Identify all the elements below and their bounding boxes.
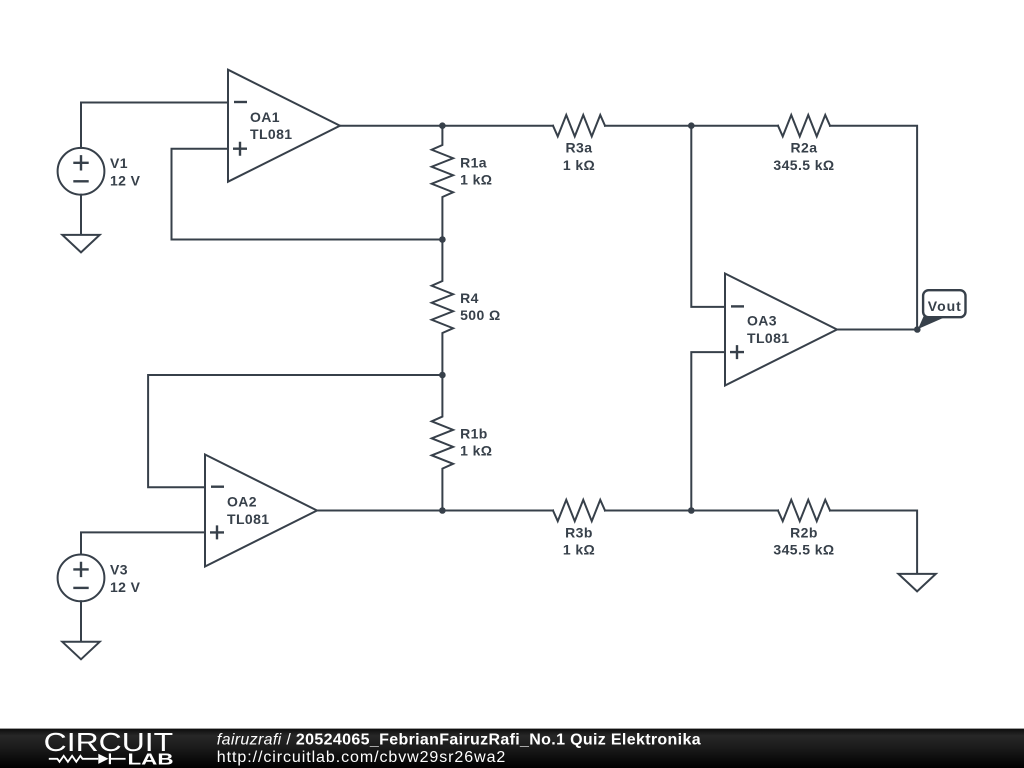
svg-text:TL081: TL081	[250, 126, 292, 142]
wire R2a to right rail down to Vout node	[830, 126, 917, 330]
OA1 plus pin marker	[233, 142, 247, 156]
logo diode bar	[109, 753, 111, 764]
junction node D	[439, 372, 446, 379]
logo resistor squiggle	[49, 756, 99, 762]
wire OA2 inverting feedback to node D	[148, 375, 442, 487]
svg-text:1 kΩ: 1 kΩ	[460, 172, 492, 188]
svg-text:R3a: R3a	[566, 140, 593, 156]
svg-text:V3: V3	[110, 562, 128, 578]
svg-text:12 V: 12 V	[110, 579, 141, 595]
svg-text:R3b: R3b	[565, 525, 593, 541]
voltage source V3	[58, 555, 105, 602]
wire OA3 non-inverting input down to node E	[691, 352, 725, 510]
svg-text:fairuzrafi / 20524065_FebrianF: fairuzrafi / 20524065_FebrianFairuzRafi_…	[217, 731, 701, 748]
resistor R2a	[778, 115, 830, 136]
svg-text:V1: V1	[110, 155, 128, 171]
resistor R2b	[778, 500, 830, 521]
svg-text:R1b: R1b	[460, 426, 488, 442]
svg-text:1 kΩ: 1 kΩ	[563, 157, 595, 173]
svg-text:500 Ω: 500 Ω	[460, 307, 500, 323]
junction node A	[439, 122, 446, 129]
svg-text:345.5 kΩ: 345.5 kΩ	[773, 542, 834, 558]
wire OA2 output to node F	[317, 510, 553, 512]
wire node E to R2b	[691, 510, 778, 512]
svg-text:R2b: R2b	[790, 525, 818, 541]
junction node B	[439, 236, 446, 243]
wire OA2 non-inverting input to V3 top	[81, 532, 205, 554]
svg-text:1 kΩ: 1 kΩ	[460, 443, 492, 459]
resistor R1b	[432, 375, 453, 511]
op-amp OA2	[205, 455, 317, 567]
svg-text:OA2: OA2	[227, 494, 257, 510]
wire R2b to ground rail	[830, 511, 917, 574]
junction node F	[439, 507, 446, 514]
OA2 plus pin marker	[210, 525, 224, 539]
wire R3a to node C	[605, 125, 691, 127]
wire node C down to OA3 inverting input	[691, 126, 725, 307]
junction node C	[688, 122, 695, 129]
OA2 minus pin marker	[211, 486, 224, 488]
wire V3 bottom to ground	[80, 601, 82, 642]
ground below R2b	[898, 574, 935, 592]
V3 plus sign	[73, 562, 88, 577]
wire V1 top to OA1 inverting input	[81, 103, 228, 148]
ground below V3	[62, 642, 99, 660]
svg-text:R4: R4	[460, 290, 479, 306]
svg-text:R1a: R1a	[460, 155, 487, 171]
wire V1 bottom to ground	[80, 195, 82, 235]
OA1 minus pin marker	[234, 101, 247, 103]
svg-text:1 kΩ: 1 kΩ	[563, 542, 595, 558]
op-amp OA3	[725, 274, 837, 386]
wire OA1 output to node A	[340, 125, 553, 127]
junction node E	[688, 507, 695, 514]
resistor R3a	[553, 115, 605, 136]
OA3 plus pin marker	[730, 345, 744, 359]
resistor R1a	[432, 126, 453, 240]
net flag Vout box	[923, 290, 965, 317]
svg-text:R2a: R2a	[791, 140, 818, 156]
logo wire after diode	[111, 758, 126, 760]
OA3 minus pin marker	[731, 305, 744, 307]
resistor R4	[432, 240, 453, 376]
op-amp OA1	[228, 70, 340, 182]
svg-text:345.5 kΩ: 345.5 kΩ	[773, 157, 834, 173]
wire node C to R2a	[691, 125, 778, 127]
junction Vout node	[914, 326, 921, 333]
svg-text:TL081: TL081	[227, 511, 269, 527]
wire OA1 non-inverting feedback to node B	[172, 149, 443, 240]
wire R3b to node E	[605, 510, 691, 512]
svg-text:LAB: LAB	[128, 752, 174, 768]
resistor R3b	[553, 500, 605, 521]
logo diode triangle	[98, 754, 108, 764]
footer bar	[0, 729, 1024, 768]
ground below V1	[62, 235, 99, 253]
svg-text:12 V: 12 V	[110, 172, 141, 188]
svg-text:Vout: Vout	[928, 298, 961, 314]
net flag Vout pointer	[918, 316, 945, 329]
svg-text:http://circuitlab.com/cbvw29sr: http://circuitlab.com/cbvw29sr26wa2	[217, 749, 506, 766]
svg-text:TL081: TL081	[747, 330, 789, 346]
V3 minus sign	[73, 587, 88, 589]
wire OA3 output to Vout node	[837, 329, 917, 331]
svg-text:OA3: OA3	[747, 313, 777, 329]
V1 minus sign	[73, 180, 88, 182]
V1 plus sign	[73, 155, 88, 170]
svg-text:OA1: OA1	[250, 109, 280, 125]
voltage source V1	[58, 148, 105, 195]
